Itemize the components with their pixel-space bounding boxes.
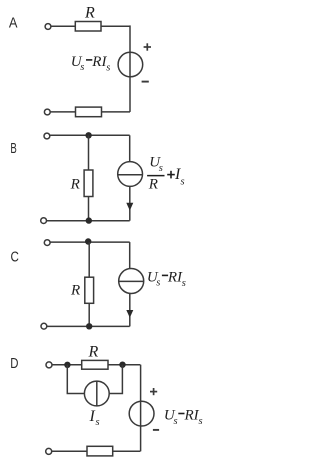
- wire C resistor bottom lead: [88, 303, 90, 326]
- wire D current-source branch left: [67, 365, 84, 394]
- svg-text:R: R: [70, 176, 80, 192]
- wire D bottom-left: [52, 450, 87, 452]
- wire D top-right: [108, 364, 140, 366]
- value label U_s-RI_s (option A): [71, 54, 110, 73]
- value label U_s-RI_s (option D): [164, 408, 203, 427]
- value label Us/R + Is (option B): [147, 155, 184, 193]
- wire C right vertical top: [129, 242, 131, 269]
- resistor R (option D): [82, 360, 108, 369]
- wire D top-left: [52, 364, 82, 366]
- svg-text:R: R: [88, 343, 99, 360]
- svg-text:s: s: [182, 278, 186, 289]
- svg-text:s: s: [156, 278, 160, 289]
- resistor R (option A): [75, 22, 101, 32]
- wire C top: [50, 241, 130, 243]
- wire A top-left: [51, 25, 75, 27]
- arrowhead (option B current direction): [126, 203, 133, 211]
- wire B right vertical bottom with arrow: [129, 186, 131, 220]
- current source bar (option C): [119, 280, 144, 282]
- terminal D bottom-left: [46, 448, 52, 454]
- wire B bottom: [47, 220, 130, 222]
- svg-text:s: s: [106, 62, 110, 73]
- svg-text:R: R: [84, 5, 95, 22]
- svg-text:s: s: [80, 62, 84, 73]
- svg-text:s: s: [159, 163, 163, 174]
- terminal D top-left: [46, 362, 52, 368]
- current source bar (option B): [118, 174, 143, 176]
- junction D top-left: [64, 362, 70, 368]
- arrowhead (option C current direction): [126, 310, 133, 318]
- value label U_s-RI_s (option C): [147, 270, 186, 289]
- wire A bottom: [50, 111, 75, 113]
- svg-text:s: s: [181, 177, 185, 188]
- svg-text:s: s: [174, 416, 178, 427]
- terminal B top-left: [44, 133, 50, 139]
- wire B resistor top lead: [88, 135, 90, 170]
- svg-text:s: s: [96, 417, 100, 428]
- svg-text:R: R: [148, 176, 158, 192]
- svg-text:RI: RI: [167, 270, 183, 286]
- svg-text:I: I: [89, 408, 96, 425]
- wire B right vertical top: [129, 135, 131, 161]
- svg-text:R: R: [70, 283, 80, 299]
- wire D current-source branch right: [109, 365, 122, 394]
- junction B top: [85, 132, 91, 138]
- junction B bottom: [86, 217, 92, 223]
- wire A top-right: [101, 25, 130, 27]
- wire A right vertical through source: [129, 25, 131, 112]
- current source circle I_s (option D): [84, 381, 109, 406]
- svg-text:RI: RI: [91, 54, 107, 70]
- wire C bottom: [47, 325, 130, 327]
- series box on D bottom wire: [87, 446, 113, 456]
- svg-text:D: D: [10, 356, 18, 372]
- svg-text:B: B: [10, 141, 16, 157]
- wire D right vertical through source: [140, 365, 142, 452]
- current source circle (option B): [118, 162, 143, 187]
- wire B resistor bottom lead: [88, 197, 90, 221]
- terminal A top-left: [45, 24, 51, 30]
- voltage source circle (option D) U_s-RI_s: [129, 401, 154, 426]
- wire A bottom-right: [102, 111, 131, 113]
- wire C resistor top lead: [88, 242, 90, 277]
- current source bar (option D): [96, 381, 98, 406]
- series box on A bottom wire: [76, 107, 102, 117]
- plus sign (option D): [150, 388, 157, 395]
- terminal B bottom-left: [41, 218, 47, 224]
- junction C top: [85, 238, 91, 244]
- value label I_s (option D): [89, 408, 100, 428]
- terminal C bottom-left: [41, 323, 47, 329]
- svg-text:RI: RI: [184, 408, 200, 424]
- minus sign (option D): [153, 429, 159, 431]
- svg-text:s: s: [199, 416, 203, 427]
- plus sign (option A): [144, 43, 151, 50]
- junction D top-right: [119, 362, 125, 368]
- minus sign (option A): [142, 81, 149, 83]
- resistor R (option B): [84, 170, 93, 197]
- resistor R (option C): [85, 277, 94, 303]
- current source circle (option C): [119, 269, 144, 294]
- junction C bottom: [86, 323, 92, 329]
- terminal A bottom-left: [44, 109, 50, 115]
- wire B top: [50, 134, 130, 136]
- voltage source circle (option A) U_s-RI_s: [118, 52, 143, 77]
- terminal C top-left: [44, 240, 50, 246]
- wire C right vertical bottom with arrow: [129, 293, 131, 326]
- svg-text:C: C: [11, 250, 19, 266]
- svg-text:A: A: [9, 16, 18, 32]
- wire D bottom-right: [113, 450, 141, 452]
